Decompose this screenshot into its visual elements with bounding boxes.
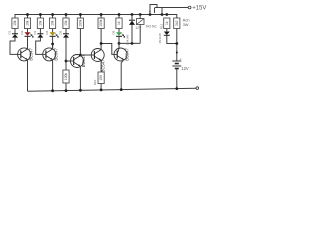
label relay 12V xyxy=(135,26,142,30)
svg-text:D1: D1 xyxy=(7,30,11,34)
diode D1 xyxy=(7,30,18,37)
svg-text:12V: 12V xyxy=(181,66,189,71)
transistor T1 BC547 xyxy=(18,47,34,60)
wire D5 to T3 base column xyxy=(65,38,67,70)
label Rch 3W xyxy=(183,18,190,28)
svg-text:1N4148: 1N4148 xyxy=(158,33,162,44)
transistor T3 BC547 xyxy=(71,54,87,67)
wire T3 base tap xyxy=(66,60,71,62)
relay contact lever xyxy=(149,5,162,15)
svg-text:3W: 3W xyxy=(183,22,189,27)
node T3 base xyxy=(65,60,68,63)
wire +15V feed xyxy=(155,7,188,9)
wire battery to ground rail xyxy=(176,69,178,89)
relay contact NC stub xyxy=(154,8,156,14)
node LED3 junction xyxy=(118,42,121,45)
wire T5 collector to relay xyxy=(119,25,140,49)
transistor T2 BC547 xyxy=(43,47,59,60)
wire T4 emitter xyxy=(100,61,102,72)
resistor R6 xyxy=(77,18,83,29)
svg-text:10k: 10k xyxy=(26,20,30,26)
resistor R3 xyxy=(37,18,43,29)
diode D3 xyxy=(33,30,44,37)
wire relay coil top xyxy=(139,15,141,19)
node T4 collector junction xyxy=(100,42,103,45)
wire R5-D5 xyxy=(65,29,67,34)
node LED2-T2 collector xyxy=(51,43,54,46)
wire resistor top stubs xyxy=(28,15,120,19)
wire R7 down xyxy=(100,29,102,49)
transistor T5 BC547 xyxy=(114,48,130,61)
svg-text:BC547: BC547 xyxy=(125,48,130,61)
svg-text:2k2: 2k2 xyxy=(175,20,179,25)
svg-text:D5: D5 xyxy=(58,30,62,34)
diode D9 flyback xyxy=(126,20,135,45)
wire D3 to T2 base jog xyxy=(36,38,43,55)
wire T4 collector to T5 base xyxy=(101,44,114,55)
resistor R7 xyxy=(98,18,104,29)
svg-text:D3: D3 xyxy=(33,30,37,34)
svg-text:NO NC: NO NC xyxy=(146,25,157,29)
svg-text:10k: 10k xyxy=(13,20,17,26)
node battery tap xyxy=(176,52,178,54)
svg-text:D4: D4 xyxy=(45,30,49,34)
resistor R11 xyxy=(160,18,170,29)
svg-text:12V: 12V xyxy=(135,26,142,30)
resistor R5 xyxy=(63,18,69,29)
label NO NC xyxy=(146,25,157,29)
svg-text:10k: 10k xyxy=(64,20,68,26)
wire T1 emitter to rail xyxy=(27,60,29,91)
wire D1 to T1 base jog xyxy=(10,38,18,55)
svg-text:BC547: BC547 xyxy=(53,47,58,60)
transistor T4 BC547 xyxy=(91,49,106,73)
node flyback diode junction xyxy=(131,42,134,45)
wire R3-D3 xyxy=(39,29,41,34)
wire ground rail xyxy=(28,88,197,91)
wire R10 to rail xyxy=(100,84,102,90)
wire LED2 to T2 collector xyxy=(52,36,54,48)
wire R1-D1 xyxy=(14,29,16,34)
wire flyback diode top xyxy=(131,15,133,21)
resistor R1 xyxy=(12,18,18,29)
svg-text:100: 100 xyxy=(99,75,103,81)
wire Rch down to battery xyxy=(176,29,178,62)
resistor R4 xyxy=(50,18,56,29)
svg-text:D2: D2 xyxy=(20,30,24,34)
resistor R2 xyxy=(24,18,30,29)
resistor Rch 3W xyxy=(174,18,180,29)
battery BT1 12V xyxy=(172,56,189,71)
svg-text:10k: 10k xyxy=(51,20,55,26)
wire T1 collector xyxy=(27,41,29,48)
resistor R10 emitter xyxy=(93,72,104,85)
wire T2 emitter to rail xyxy=(52,60,54,90)
wire R4-LED2 xyxy=(52,29,54,33)
wire R8-LED3 xyxy=(118,29,120,33)
wire +V top rail xyxy=(15,15,177,19)
svg-text:100k: 100k xyxy=(99,19,103,27)
terminal 0V xyxy=(196,87,199,90)
relay RE1 coil xyxy=(136,19,144,25)
wire T4 base link xyxy=(80,54,91,56)
diode D10 charge xyxy=(158,32,170,44)
svg-text:BC547: BC547 xyxy=(28,47,33,60)
svg-text:D8: D8 xyxy=(111,30,115,34)
node T3 collector / T4 base xyxy=(79,54,82,57)
wire R11 down xyxy=(166,29,168,32)
diode D5 xyxy=(58,30,69,37)
svg-text:R10: R10 xyxy=(93,79,97,85)
resistor R8 xyxy=(116,18,122,29)
svg-text:10k: 10k xyxy=(39,20,43,26)
wire T3 emitter to rail xyxy=(79,67,81,90)
node ground junctions xyxy=(51,87,178,92)
svg-text:100k: 100k xyxy=(79,19,83,27)
svg-text:1k: 1k xyxy=(117,21,121,25)
resistor R9 base bleed xyxy=(63,70,69,83)
terminal +15V xyxy=(188,6,191,9)
svg-text:BC547: BC547 xyxy=(81,54,86,67)
svg-text:1k: 1k xyxy=(165,21,169,25)
wire T5 emitter to rail xyxy=(121,61,123,90)
LED LED2 yellow xyxy=(45,30,58,37)
wire R9 to ground rail xyxy=(65,83,67,91)
wire T2 collector xyxy=(52,44,54,48)
wire flyback diode bottom xyxy=(131,25,133,44)
node top rail junctions xyxy=(26,13,168,16)
svg-text:+15V: +15V xyxy=(192,6,206,12)
wire R6 to T3 collector xyxy=(79,29,81,56)
wire D10 to battery node xyxy=(167,35,177,43)
LED LED1 red xyxy=(20,30,33,37)
wire LED3 down xyxy=(118,36,120,43)
wire LED1 to T1 collector xyxy=(27,36,29,48)
LED LED3 green xyxy=(111,30,124,37)
svg-text:100k: 100k xyxy=(64,73,68,81)
label +15V xyxy=(192,6,206,12)
wire R2-LED1 xyxy=(27,29,29,33)
svg-text:R12: R12 xyxy=(160,23,164,29)
node charge junction xyxy=(175,42,178,45)
svg-text:1N4148: 1N4148 xyxy=(126,34,130,45)
